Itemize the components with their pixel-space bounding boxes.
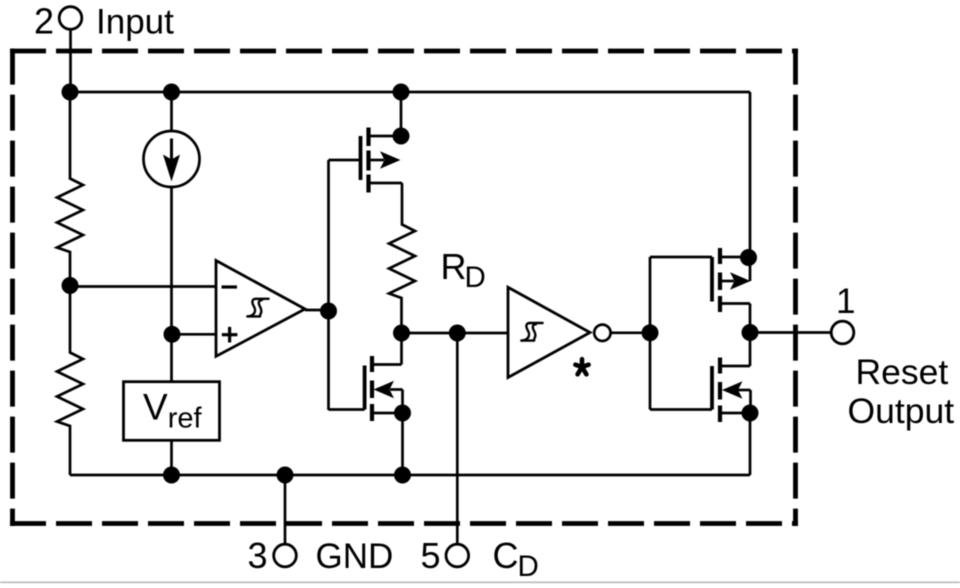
hysteresis symbol inverter [521, 323, 542, 341]
node inverter output [642, 324, 659, 341]
node NMOS source rail [394, 467, 411, 484]
inverter U2 schmitt [508, 287, 590, 377]
svg-text:Reset: Reset [856, 352, 949, 392]
current source I1 [170, 92, 173, 131]
wire plus input [172, 333, 216, 336]
wire Vref to rail [170, 440, 173, 475]
node RD bottom [393, 325, 410, 342]
wire top rail [70, 91, 750, 94]
wire CD column [456, 333, 459, 544]
op-amp comparator U1 [216, 261, 305, 357]
pin 2 terminal [59, 7, 82, 30]
node GND tap [277, 467, 294, 484]
node CD tap [449, 325, 466, 342]
svg-text:GND: GND [316, 537, 394, 576]
wire output to pin 1 [750, 331, 831, 334]
svg-text:CD: CD [493, 535, 539, 583]
resistor R2 [57, 286, 83, 476]
pin 1 terminal [831, 321, 854, 344]
node current source tap [163, 84, 180, 101]
wire output gate column [649, 257, 652, 410]
wire gate column [327, 160, 330, 410]
node divider mid [62, 277, 79, 294]
wire current source to Vref [170, 187, 173, 382]
node first stage tap [393, 84, 410, 101]
transistor Q3 PMOS output [650, 92, 757, 333]
minus symbol [222, 285, 238, 288]
wire minus input [70, 285, 216, 288]
node Vref ground [163, 467, 180, 484]
node plus input tap [164, 326, 181, 343]
transistor Q4 NMOS output [650, 333, 759, 476]
wire GND pin lead [284, 475, 287, 544]
svg-text:2: 2 [34, 1, 54, 42]
plus symbol [222, 327, 238, 343]
resistor RD [389, 221, 415, 333]
node comparator output [320, 303, 337, 320]
svg-text:5: 5 [421, 535, 441, 576]
IC boundary dashed box [10, 49, 798, 526]
svg-text:Output: Output [848, 391, 955, 431]
separator rule bottom [0, 582, 960, 584]
svg-text:3: 3 [248, 535, 268, 576]
inverter bubble [594, 325, 610, 341]
pin 3 terminal [274, 544, 297, 567]
node output [742, 324, 759, 341]
wire comparator output [305, 309, 329, 312]
wire inverter to node [611, 331, 650, 334]
Vref box U3 [124, 382, 220, 441]
transistor Q2 NMOS first stage [329, 333, 412, 475]
svg-text:1: 1 [836, 282, 855, 321]
hysteresis symbol comparator [247, 299, 268, 317]
asterisk [575, 359, 588, 374]
wire input lead [69, 29, 72, 92]
svg-text:Input: Input [96, 3, 174, 42]
pin 5 terminal [446, 544, 469, 567]
wire bottom rail [70, 474, 750, 477]
node input rail left [62, 84, 79, 101]
wire node row [402, 332, 509, 335]
svg-text:RD: RD [441, 246, 486, 294]
transistor Q1 PMOS first stage [329, 92, 410, 221]
resistor R1 [57, 92, 83, 286]
